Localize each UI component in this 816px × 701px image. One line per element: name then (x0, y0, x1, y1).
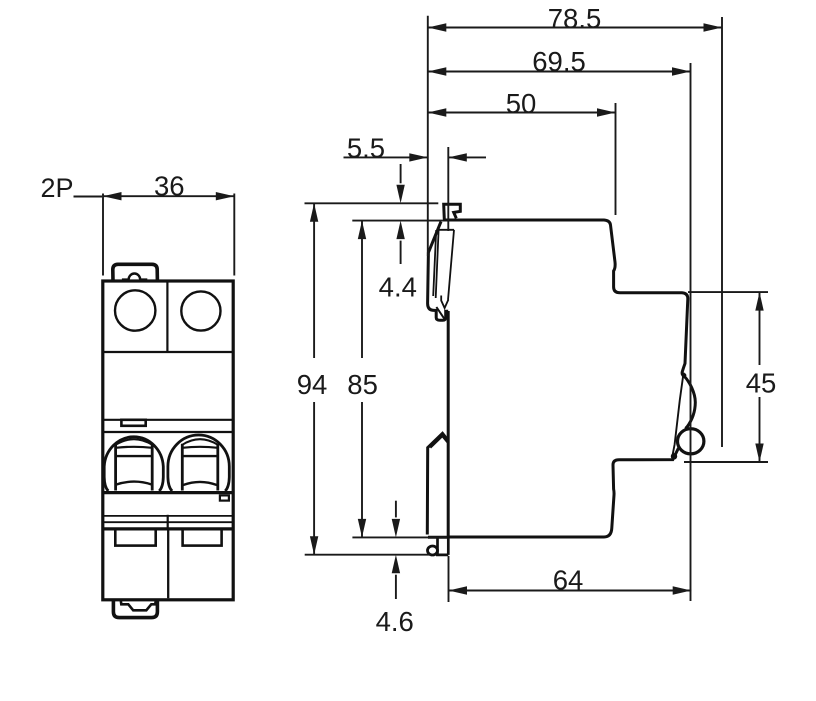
svg-text:2P: 2P (40, 173, 73, 203)
side view main outline (443, 220, 695, 427)
front view bottom clip tab (113, 600, 157, 618)
svg-text:5.5: 5.5 (347, 132, 385, 163)
reference line body bottom (352, 536, 447, 538)
front view center tick (167, 515, 169, 529)
dimension 36 right arrow (216, 192, 235, 200)
svg-text:4.6: 4.6 (376, 606, 414, 637)
dimension 85 bottom arrow (358, 519, 366, 538)
front view right toggle handle mid line (182, 455, 219, 457)
front view left toggle handle sides (116, 444, 153, 491)
side view upper clip spring plate (433, 230, 454, 308)
front view left toggle handle cap line (116, 447, 153, 448)
side view toggle pivot knot (682, 373, 687, 378)
front view right terminal screw (181, 291, 220, 330)
front view pole divider lower (167, 529, 169, 598)
svg-text:78.5: 78.5 (548, 3, 602, 34)
dimension 78.5 right arrow (704, 23, 723, 31)
front view body outline (103, 281, 233, 600)
front view bottom tab scallop (121, 601, 156, 611)
side view lower clip foot stem (436, 538, 439, 555)
side view toggle tip loop (678, 429, 704, 454)
dimension 4.4 upper arrow (400, 164, 402, 183)
front view mid thin line 2 (103, 521, 233, 523)
front view mid thin line 1 (103, 515, 233, 517)
side view lower clip foot top edge (428, 536, 450, 539)
front view pole divider upper (166, 281, 168, 352)
dimension 45 bottom arrow (755, 444, 763, 463)
reference line clip foot bottom (305, 554, 431, 556)
extension line 78.5 right (721, 17, 723, 447)
side view lower clip foot bottom (436, 537, 448, 555)
dimension 36 left extension line (102, 194, 104, 276)
front view faceplate lower line (103, 431, 233, 433)
dimension 64 right arrow (673, 586, 692, 594)
extension line 64 left (448, 556, 450, 602)
dimension 64 left arrow (449, 586, 468, 594)
front view right toggle handle bottom arc (183, 482, 217, 485)
front view toggle base bar (103, 491, 233, 494)
svg-text:4.4: 4.4 (379, 272, 417, 303)
dimension 50 right arrow (597, 108, 616, 116)
dimension 69.5 line (428, 71, 691, 73)
dimension 50 left arrow (428, 108, 447, 116)
dimension 4.6 upper arrow (395, 501, 397, 518)
front view label notch (121, 420, 145, 426)
dimension 94 bottom arrow (310, 536, 318, 555)
side view front lower step (448, 311, 678, 537)
dimension 94 line (313, 203, 315, 358)
dimension 94 top arrow (310, 203, 318, 222)
front view right toggle arch (168, 435, 229, 491)
side view lower clip inner chevron (430, 436, 448, 448)
side view upper din clip outline (428, 222, 449, 321)
front view left label window (115, 529, 155, 546)
front view right toggle handle sides (182, 444, 218, 491)
front view small window right (220, 495, 229, 500)
front view right toggle handle cap line (182, 447, 218, 448)
front view top tab inner dome (122, 274, 147, 280)
extension line 5.5 right (447, 147, 449, 231)
dimension 78.5 left arrow (428, 23, 447, 31)
side view toggle lever inner line (672, 373, 684, 459)
front view left toggle handle bottom arc (116, 482, 152, 485)
dimension 4.6 lower arrow (395, 575, 397, 599)
dimension 45 top arrow (755, 292, 763, 311)
svg-text:94: 94 (297, 369, 328, 400)
side view top hook (444, 204, 461, 219)
svg-text:85: 85 (347, 369, 378, 400)
front view right label window (183, 529, 222, 546)
dimension 64 line (449, 590, 692, 592)
dimension 36 right extension line (233, 194, 235, 276)
side view upper clip foot diagonal (436, 307, 444, 319)
dimension 36 left arrow (103, 192, 122, 200)
reference line front top step (688, 291, 768, 293)
front view right toggle handle top arc (182, 439, 218, 445)
front view faceplate upper line (103, 419, 233, 421)
dimension 45 line (759, 292, 761, 365)
dimension 5.5 line left (344, 156, 428, 158)
dimension 5.5 right arrow (448, 153, 467, 161)
front view top mounting tab (113, 264, 158, 281)
front view left terminal screw (115, 290, 155, 330)
svg-text:50: 50 (506, 88, 537, 119)
dimension 5.5 left arrow (409, 153, 428, 161)
side view lower din clip outline (427, 433, 448, 534)
front view left toggle arch (104, 437, 163, 491)
dimension 69.5 left arrow (428, 67, 447, 75)
front view mid thick line (103, 527, 233, 530)
dimension 36 line (103, 195, 234, 197)
side view lower clip foot bowl (428, 546, 438, 555)
reference line body top (352, 220, 443, 222)
reference line front bottom step (684, 461, 768, 463)
front view terminal section line (103, 351, 233, 353)
side view toggle arc-loop junction (685, 426, 689, 430)
dimension 78.5 line (428, 27, 722, 29)
front view left toggle handle top arc (116, 439, 153, 445)
dimension 85 top arrow (358, 221, 366, 240)
reference line hook top (305, 202, 439, 204)
dimension 50 line (428, 112, 616, 114)
extension line 50 right (615, 103, 617, 215)
side view toggle loop junction blob (671, 453, 677, 459)
extension line 69.5 and 64 right (690, 63, 692, 601)
dimension 5.5 line right (448, 156, 486, 158)
dimension 69.5 right arrow (672, 67, 691, 75)
dimension 2P leader (74, 196, 103, 198)
dimension 85 line (361, 221, 363, 358)
extension line left of side view (427, 16, 429, 256)
front view left toggle handle mid line (115, 455, 153, 457)
svg-text:45: 45 (746, 368, 777, 399)
dimension 4.4 lower arrow (400, 241, 402, 264)
